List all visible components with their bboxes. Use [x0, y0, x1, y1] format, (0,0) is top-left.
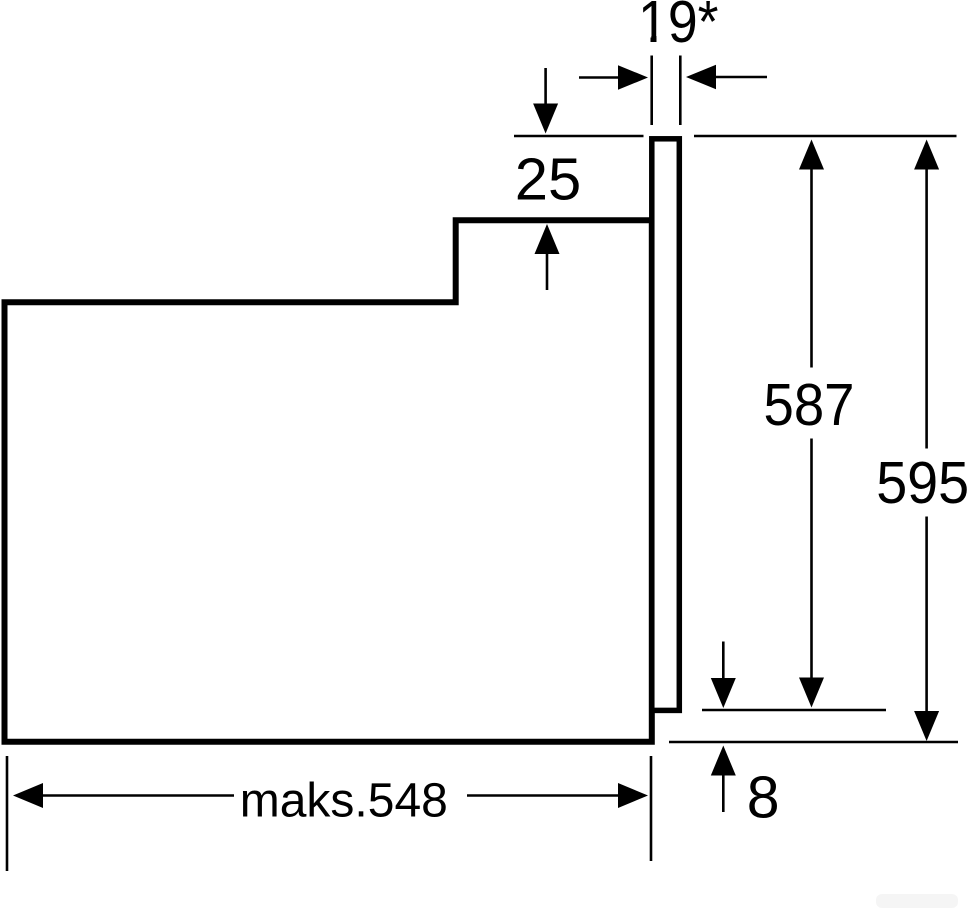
dim 587 vertical line with arrows — [799, 140, 824, 708]
dim 19* left arrow — [579, 65, 648, 90]
extension line at flange bottom (587) — [702, 709, 886, 712]
dim 19* right extension dash — [679, 56, 682, 126]
dim 8 down arrow — [711, 642, 736, 709]
dim 595 vertical line with arrows — [914, 140, 939, 742]
dim 8 up arrow — [711, 746, 736, 813]
svg-text:19*: 19* — [638, 0, 719, 55]
dim 19* left extension dash — [650, 56, 653, 126]
maks.548 right extension line — [650, 756, 653, 861]
dim 25 up arrow — [535, 224, 560, 290]
front frame (flange) — [652, 139, 680, 711]
svg-text:587: 587 — [764, 372, 855, 438]
faint watermark smudge — [876, 894, 958, 908]
svg-text:595: 595 — [876, 450, 969, 516]
top extension line (right segment) — [694, 135, 957, 138]
label 19* digit-1 foot mask (Arial-style 1) — [640, 37, 650, 43]
dim maks.548 line with arrows — [13, 783, 648, 808]
svg-text:8: 8 — [747, 765, 780, 831]
extension line at body bottom (595/8) — [669, 741, 958, 744]
dim 25 down arrow — [533, 68, 558, 134]
maks.548 left extension line — [6, 756, 9, 871]
svg-text:maks.548: maks.548 — [240, 775, 448, 828]
top extension line (left segment) — [514, 135, 644, 138]
svg-text:25: 25 — [515, 147, 582, 213]
dim 19* right arrow — [686, 65, 767, 90]
oven body outline — [5, 220, 652, 742]
